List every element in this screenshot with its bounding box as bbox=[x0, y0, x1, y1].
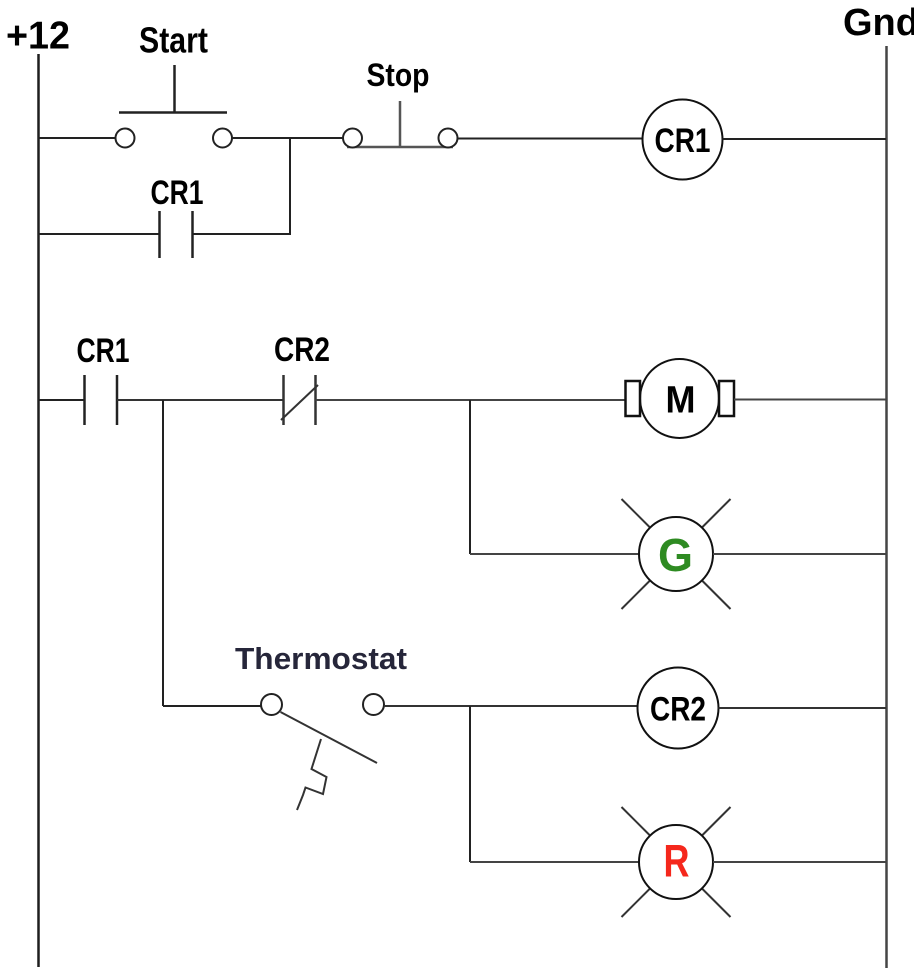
wire rail to contact CR1 row2 bbox=[38, 399, 84, 401]
lamp R (red pilot light) bbox=[622, 807, 731, 917]
wire thermostat to coil CR2 bbox=[384, 705, 638, 707]
svg-text:Stop: Stop bbox=[367, 57, 430, 93]
wire coil CR2 to right rail bbox=[719, 707, 887, 709]
wire Stop to coil CR1 bbox=[458, 138, 643, 140]
pushbutton Stop (NC momentary) bbox=[343, 101, 458, 148]
wire rail to Start bbox=[38, 137, 116, 139]
svg-text:+12: +12 bbox=[6, 15, 70, 58]
svg-text:Thermostat: Thermostat bbox=[235, 641, 407, 676]
wire contact CR2 to motor M bbox=[316, 399, 627, 401]
svg-text:Gnd: Gnd bbox=[843, 2, 914, 44]
wire branch down to thermostat rung bbox=[162, 400, 164, 706]
svg-text:CR2: CR2 bbox=[650, 691, 706, 729]
svg-text:M: M bbox=[666, 380, 696, 422]
wire branch to lamp G bbox=[470, 553, 640, 555]
contact CR1 seal-in (NO) bbox=[160, 211, 193, 258]
wire branch down to lamp G bbox=[469, 400, 471, 554]
wire branch down to lamp R bbox=[469, 706, 471, 862]
right rail (Gnd) bbox=[885, 46, 888, 968]
wire lamp R to right rail bbox=[713, 861, 886, 863]
svg-text:CR1: CR1 bbox=[655, 122, 711, 160]
wire lamp G to right rail bbox=[713, 553, 886, 555]
contact CR1 (NO, rung 2) bbox=[85, 375, 118, 425]
wire branch to lamp R bbox=[470, 861, 640, 863]
wire Start to Stop bbox=[232, 137, 343, 139]
wire motor M to right rail bbox=[734, 399, 886, 401]
svg-text:CR1: CR1 bbox=[151, 174, 204, 212]
motor M bbox=[626, 359, 735, 438]
svg-text:CR2: CR2 bbox=[274, 331, 330, 369]
contact CR2 (NC, rung 2) bbox=[281, 375, 318, 425]
wire seal-in contact to branch bbox=[193, 233, 291, 235]
relay coil CR2 bbox=[638, 668, 719, 749]
wire contact CR1 to contact CR2 bbox=[117, 399, 284, 401]
wire coil CR1 to right rail bbox=[723, 138, 887, 140]
svg-text:CR1: CR1 bbox=[77, 332, 130, 370]
thermostat switch bbox=[261, 694, 384, 810]
wire branch down to seal-in contact bbox=[289, 138, 291, 234]
relay coil CR1 bbox=[643, 100, 723, 180]
svg-text:R: R bbox=[664, 836, 690, 887]
wire rail to seal-in contact CR1 bbox=[38, 233, 159, 235]
svg-text:Start: Start bbox=[139, 20, 208, 61]
lamp G (green pilot light) bbox=[622, 499, 731, 609]
wire branch to thermostat bbox=[163, 705, 261, 707]
left rail (+12) bbox=[37, 54, 40, 967]
pushbutton Start (NO momentary) bbox=[116, 65, 233, 148]
svg-text:G: G bbox=[658, 529, 693, 581]
